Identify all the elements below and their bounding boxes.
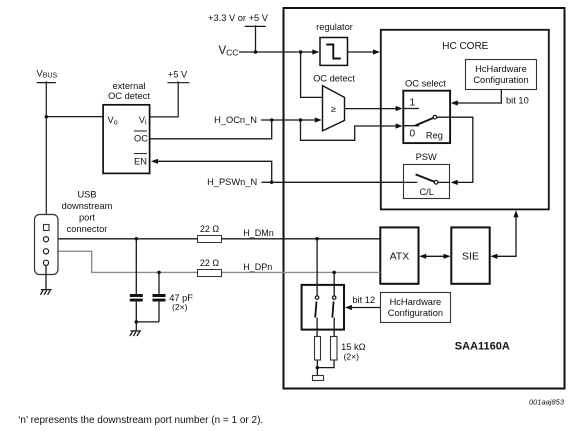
svg-text:001aaj853: 001aaj853 xyxy=(529,398,565,407)
wire H_DMn xyxy=(49,238,381,240)
ATX box xyxy=(380,227,418,283)
arrow into regulator xyxy=(312,49,319,54)
switch blade S2 xyxy=(332,301,333,317)
wire OC select input 1 xyxy=(403,108,419,110)
regulator step glyph xyxy=(326,45,341,59)
wire H_PSWn_N xyxy=(262,181,404,183)
arrow into OC select 0 xyxy=(396,123,403,128)
USB connector shell xyxy=(35,215,59,275)
wire bit 12 xyxy=(352,307,380,309)
overline OC pin xyxy=(134,130,147,132)
svg-text:connector: connector xyxy=(67,224,108,234)
wire connector ground xyxy=(41,265,52,289)
svg-text:port: port xyxy=(79,213,95,223)
wire comparator output xyxy=(345,108,398,110)
arrow into OC select 1 xyxy=(396,106,403,111)
svg-text:+5 V: +5 V xyxy=(168,69,188,79)
wire H_DPn xyxy=(49,251,381,272)
signal ground plate xyxy=(313,376,324,381)
svg-text:22 Ω: 22 Ω xyxy=(200,224,220,234)
svg-text:bit 12: bit 12 xyxy=(352,295,375,305)
svg-text:OC select: OC select xyxy=(405,79,446,89)
svg-text:downstream: downstream xyxy=(62,201,113,211)
earth ground bar caps xyxy=(131,330,142,332)
wire switch column D+ xyxy=(333,272,335,336)
arrow into comparator xyxy=(315,117,322,122)
HcHardware Configuration box bit12 xyxy=(381,293,451,323)
svg-text:H_DMn: H_DMn xyxy=(243,228,274,238)
svg-text:Reg: Reg xyxy=(426,131,443,141)
HcHardware Configuration box bit10 xyxy=(466,60,537,90)
svg-text:C/L: C/L xyxy=(419,187,433,197)
svg-text:HC CORE: HC CORE xyxy=(442,41,488,52)
svg-text:H_DPn: H_DPn xyxy=(243,262,272,272)
port-switch box xyxy=(302,285,344,330)
switch contact OC select xyxy=(433,115,437,119)
resistor R4 15k body xyxy=(331,337,338,361)
SIE box xyxy=(451,227,489,283)
svg-text:VBUS: VBUS xyxy=(36,68,57,79)
resistor R1 22ohm body xyxy=(198,236,222,243)
svg-text:USB: USB xyxy=(77,190,96,200)
arrow into HC CORE xyxy=(373,49,380,54)
switch blade S1 xyxy=(315,301,316,317)
switch contact S1 xyxy=(315,296,319,300)
svg-text:SIE: SIE xyxy=(462,251,479,263)
wire capacitor branches xyxy=(136,239,159,330)
svg-text:bit 10: bit 10 xyxy=(506,96,529,106)
svg-text:H_PSWn_N: H_PSWn_N xyxy=(207,177,257,187)
svg-text:‘n’ represents the downstream: ‘n’ represents the downstream port numbe… xyxy=(18,415,263,426)
USB pin square xyxy=(44,225,50,231)
earth ground ticks connector xyxy=(40,290,50,295)
wire PSW contacts xyxy=(404,181,450,183)
wire Vbus rail xyxy=(37,81,103,224)
OC detect comparator trapezoid xyxy=(323,86,345,131)
svg-text:HcHardware: HcHardware xyxy=(475,64,527,74)
switch contact S2 xyxy=(332,296,336,300)
arrow into SIE (bus) xyxy=(444,254,451,259)
arrow into ATX (bus) xyxy=(419,254,426,259)
svg-text:OC detect: OC detect xyxy=(108,91,150,101)
svg-text:regulator: regulator xyxy=(316,22,353,32)
wire regulator output xyxy=(348,51,375,53)
svg-text:+3.3 V or +5 V: +3.3 V or +5 V xyxy=(208,13,269,23)
wire switch column D- xyxy=(316,239,318,337)
svg-text:OC detect: OC detect xyxy=(313,74,355,84)
switch blade PSW xyxy=(416,174,435,181)
wire OC select input 0 xyxy=(403,125,419,127)
switch blade OC select xyxy=(415,118,433,126)
resistor R3 15k body xyxy=(315,337,321,361)
svg-text:0: 0 xyxy=(410,128,416,139)
arrow bit10 into OC select xyxy=(451,100,458,105)
switch contact PSW xyxy=(434,180,438,184)
USB pin circle 3 xyxy=(43,260,48,265)
svg-text:SAA1160A: SAA1160A xyxy=(455,341,510,353)
USB pin circle 1 xyxy=(43,237,48,242)
arrow up into HC CORE xyxy=(513,210,518,217)
svg-text:external: external xyxy=(112,81,145,91)
wire Vcc branch to comparator xyxy=(301,52,323,97)
overline EN pin xyxy=(134,153,147,155)
arrow into SIE right xyxy=(490,254,497,259)
svg-text:(2×): (2×) xyxy=(344,351,360,361)
svg-text:EN: EN xyxy=(134,156,147,166)
wire H_OCn_N feedback to select 0 xyxy=(301,120,398,140)
wire ATX-SIE bus xyxy=(426,255,445,257)
wire Vcc xyxy=(239,51,314,53)
svg-text:PSW: PSW xyxy=(416,152,437,162)
wire OC select output to PSW xyxy=(437,117,473,182)
svg-text:≥: ≥ xyxy=(331,104,336,114)
wire +5V to Vi xyxy=(150,81,190,117)
svg-text:1: 1 xyxy=(410,98,416,109)
earth ground ticks caps xyxy=(130,332,140,337)
svg-text:OC: OC xyxy=(134,134,148,144)
capacitor C1 plates xyxy=(130,296,143,301)
wire H_OCn_N xyxy=(261,119,316,121)
svg-text:ATX: ATX xyxy=(390,251,410,263)
regulator U-box xyxy=(320,38,348,66)
svg-text:VCC: VCC xyxy=(219,45,239,58)
arrow into EN pin xyxy=(151,159,158,164)
supply +3.3V bar xyxy=(245,25,266,52)
svg-text:(2×): (2×) xyxy=(172,302,188,312)
resistor R2 22ohm body xyxy=(198,270,222,277)
PSW box xyxy=(404,165,450,199)
arrow into PSW xyxy=(451,180,458,185)
wire bit 10 xyxy=(458,90,502,104)
junction dots xyxy=(254,50,258,54)
wire resistor grounds xyxy=(317,360,334,375)
svg-text:Configuration: Configuration xyxy=(473,75,528,85)
wire OC-bar output xyxy=(150,120,272,139)
svg-text:22 Ω: 22 Ω xyxy=(200,258,220,268)
wire SIE to HC CORE xyxy=(497,217,517,256)
svg-text:Configuration: Configuration xyxy=(388,308,443,318)
svg-text:H_OCn_N: H_OCn_N xyxy=(214,115,257,125)
HC CORE box xyxy=(381,30,549,210)
svg-text:HcHardware: HcHardware xyxy=(390,297,442,307)
external OC detect box xyxy=(103,105,150,174)
USB pin circle 2 xyxy=(43,249,48,254)
arrow bit12 into switch box xyxy=(345,305,352,310)
svg-text:15 kΩ: 15 kΩ xyxy=(341,342,366,352)
wire EN-bar input xyxy=(157,161,272,182)
OC select box xyxy=(403,91,450,143)
SAA1160A outer box xyxy=(284,8,565,389)
capacitor C2 plates xyxy=(153,296,166,301)
